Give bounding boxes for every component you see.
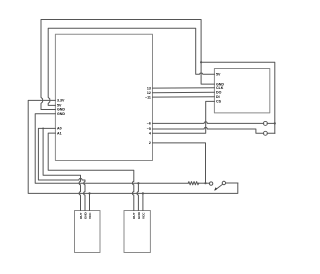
svg-text:~6: ~6	[147, 122, 151, 126]
svg-text:GND: GND	[137, 211, 141, 219]
svg-text:5V: 5V	[216, 73, 221, 77]
svg-text:A1: A1	[57, 131, 62, 135]
svg-text:DO: DO	[216, 91, 222, 95]
svg-text:GND: GND	[57, 112, 65, 116]
svg-text:CLK: CLK	[216, 86, 224, 90]
svg-text:DI: DI	[216, 95, 220, 99]
svg-text:4: 4	[149, 132, 151, 136]
svg-text:~11: ~11	[145, 95, 151, 99]
svg-text:CS: CS	[216, 100, 222, 104]
svg-text:OUT: OUT	[132, 212, 136, 219]
svg-text:A0: A0	[57, 127, 62, 131]
svg-text:VCC: VCC	[141, 212, 145, 219]
svg-text:12: 12	[147, 91, 151, 95]
svg-text:13: 13	[147, 86, 151, 90]
svg-text:3.3V: 3.3V	[57, 99, 65, 103]
svg-text:GND: GND	[83, 211, 87, 219]
svg-text:2: 2	[149, 141, 151, 145]
svg-text:OUT: OUT	[79, 212, 83, 219]
svg-text:VCC: VCC	[88, 212, 92, 219]
